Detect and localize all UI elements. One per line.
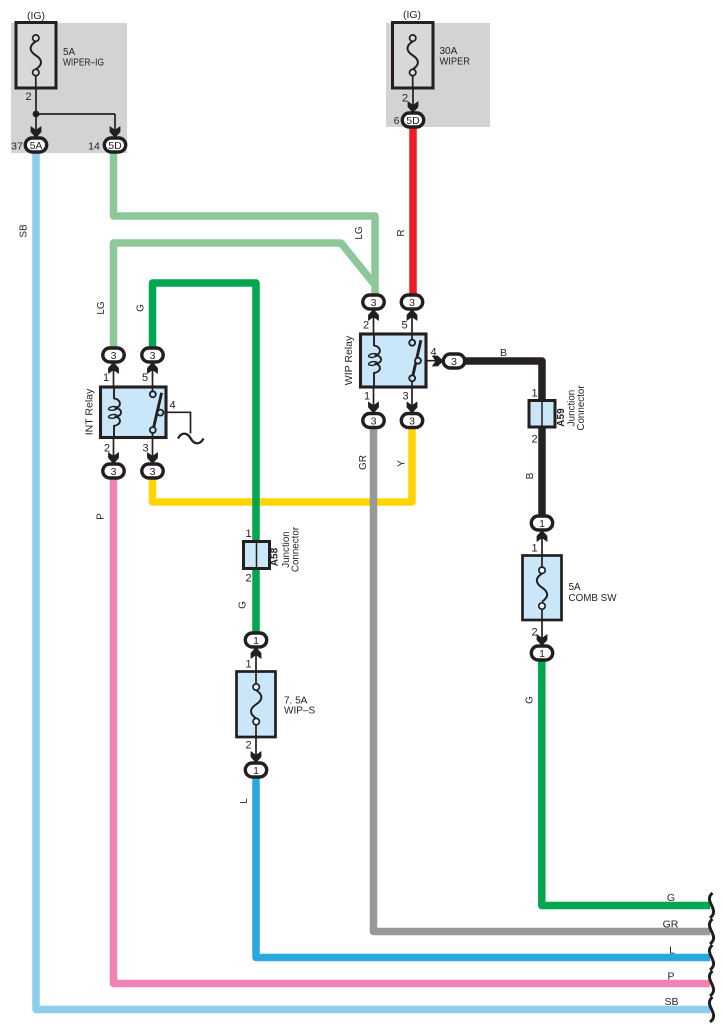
svg-text:3: 3 xyxy=(409,297,415,309)
svg-text:5: 5 xyxy=(142,372,148,384)
svg-text:2: 2 xyxy=(245,573,251,585)
svg-text:2: 2 xyxy=(25,91,31,103)
svg-text:WIPER: WIPER xyxy=(440,57,471,68)
svg-text:1: 1 xyxy=(253,635,259,647)
svg-text:LG: LG xyxy=(96,301,107,315)
svg-text:3: 3 xyxy=(142,443,148,455)
svg-text:2: 2 xyxy=(104,443,110,455)
svg-text:5D: 5D xyxy=(406,115,420,127)
svg-text:3: 3 xyxy=(402,391,408,403)
svg-text:L: L xyxy=(669,945,675,957)
svg-text:1: 1 xyxy=(245,659,251,671)
svg-text:4: 4 xyxy=(169,400,175,412)
svg-text:2: 2 xyxy=(531,627,537,639)
svg-text:3: 3 xyxy=(150,466,156,478)
svg-text:6: 6 xyxy=(394,115,400,127)
svg-text:R: R xyxy=(396,229,407,236)
svg-text:A58: A58 xyxy=(269,547,280,566)
svg-text:G: G xyxy=(238,601,249,609)
svg-text:5A: 5A xyxy=(30,140,43,152)
svg-text:GR: GR xyxy=(663,919,679,931)
svg-text:(IG): (IG) xyxy=(403,9,421,21)
svg-text:Y: Y xyxy=(397,460,408,467)
svg-text:5A: 5A xyxy=(63,47,76,58)
svg-text:3: 3 xyxy=(111,466,117,478)
svg-text:2: 2 xyxy=(363,320,369,332)
svg-text:(IG): (IG) xyxy=(27,10,45,22)
svg-text:G: G xyxy=(667,892,675,904)
svg-text:3: 3 xyxy=(371,416,377,428)
svg-text:37: 37 xyxy=(11,141,23,153)
svg-text:LG: LG xyxy=(354,226,365,240)
svg-text:2: 2 xyxy=(245,740,251,752)
svg-text:WIP Relay: WIP Relay xyxy=(343,335,355,385)
svg-text:1: 1 xyxy=(245,528,251,540)
svg-text:3: 3 xyxy=(409,416,415,428)
svg-text:1: 1 xyxy=(531,388,537,400)
svg-text:1: 1 xyxy=(531,543,537,555)
svg-text:B: B xyxy=(500,347,507,359)
svg-text:1: 1 xyxy=(103,372,109,384)
svg-text:P: P xyxy=(667,971,674,983)
svg-text:4: 4 xyxy=(430,347,436,359)
svg-text:L: L xyxy=(239,798,250,804)
svg-text:P: P xyxy=(96,513,107,520)
svg-text:2: 2 xyxy=(531,434,537,446)
svg-text:5: 5 xyxy=(401,320,407,332)
svg-text:INT Relay: INT Relay xyxy=(84,388,96,435)
svg-text:3: 3 xyxy=(451,356,457,368)
svg-text:WIPER–IG: WIPER–IG xyxy=(63,58,104,69)
svg-text:GR: GR xyxy=(358,455,369,470)
svg-text:3: 3 xyxy=(150,350,156,362)
svg-text:Connector: Connector xyxy=(576,385,587,431)
svg-text:2: 2 xyxy=(402,93,408,105)
svg-text:1: 1 xyxy=(539,648,545,660)
svg-text:WIP–S: WIP–S xyxy=(284,706,315,717)
svg-text:5A: 5A xyxy=(569,582,582,593)
svg-text:G: G xyxy=(136,304,147,312)
svg-text:3: 3 xyxy=(111,350,117,362)
svg-text:5D: 5D xyxy=(108,140,122,152)
svg-text:30A: 30A xyxy=(440,46,458,57)
svg-text:14: 14 xyxy=(88,141,100,153)
svg-text:COMB SW: COMB SW xyxy=(569,593,618,604)
svg-text:1: 1 xyxy=(364,391,370,403)
svg-text:SB: SB xyxy=(664,996,678,1008)
svg-text:1: 1 xyxy=(253,765,259,777)
svg-text:Connector: Connector xyxy=(291,526,302,572)
svg-text:1: 1 xyxy=(539,518,545,530)
svg-text:G: G xyxy=(525,696,536,704)
svg-text:A59: A59 xyxy=(556,408,567,427)
svg-text:3: 3 xyxy=(371,297,377,309)
svg-text:SB: SB xyxy=(19,224,30,238)
svg-text:B: B xyxy=(525,472,536,479)
